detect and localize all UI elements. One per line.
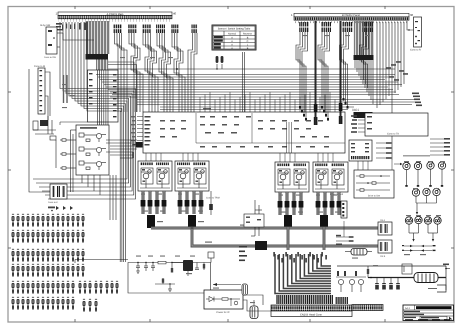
diode-resistor array row 3 xyxy=(12,249,85,262)
diode-resistor array row 6 extra group xyxy=(83,299,98,312)
array supply label xyxy=(48,207,55,212)
driver block Q3 group xyxy=(275,162,309,192)
parts between U2 and U3 xyxy=(56,139,76,169)
svg-text:Power for IC: Power for IC xyxy=(216,311,230,314)
svg-text:Conn to TK: Conn to TK xyxy=(387,133,399,136)
crystal cluster Y1 at U4 left xyxy=(133,142,143,148)
heavy harness bus band B xyxy=(192,227,378,246)
svg-text:40: 40 xyxy=(173,12,177,16)
LED D2 xyxy=(414,162,421,169)
array supply rail wire xyxy=(75,260,128,264)
jumper setting table TB1 xyxy=(212,25,256,50)
indicator header label xyxy=(403,155,430,156)
svg-text:CN A: CN A xyxy=(380,219,386,222)
dense ribbon bundle from J1 xyxy=(86,21,111,125)
title block xyxy=(403,305,454,321)
comb termination blocks xyxy=(276,295,333,304)
bus stub tags upper right xyxy=(386,61,408,80)
long arrow above regulator xyxy=(213,283,241,286)
resistor pack RP3 xyxy=(142,25,151,34)
LED D7 xyxy=(433,188,440,195)
trimmer and resistor near rail xyxy=(367,264,412,278)
svg-text:Drive to Det: Drive to Det xyxy=(368,195,380,198)
filter cap C3 xyxy=(151,263,155,272)
wires from U4/U6 down into U7 xyxy=(358,160,392,170)
pull-up caps above bus xyxy=(176,56,223,70)
LED D1 xyxy=(403,162,410,169)
svg-text:Sensor / Switch Setting Table: Sensor / Switch Setting Table xyxy=(218,27,251,30)
svg-text:A4-1: A4-1 xyxy=(405,307,411,310)
wire to right frame xyxy=(443,264,450,270)
bottom connector CN8 xyxy=(271,305,352,317)
hooked wires from RP8 group xyxy=(340,32,349,108)
lamp row leads xyxy=(409,224,438,239)
latch IC U6 below U5 xyxy=(349,140,372,161)
wire loop around CN3 xyxy=(29,69,52,192)
svg-text:Conn to SW: Conn to SW xyxy=(44,56,57,59)
resistor pack RP8 under J2 xyxy=(343,22,353,32)
crystal X1 horizontal barrel xyxy=(345,249,372,256)
comb series resistors xyxy=(273,252,327,263)
reset IC U10 top right xyxy=(410,17,422,52)
resistor pack RP2 xyxy=(128,25,137,34)
mid components on filter floor xyxy=(155,278,175,291)
single wires from J2 right pins xyxy=(377,22,404,160)
standby switch SW1 top left xyxy=(40,24,63,59)
svg-text:CN B: CN B xyxy=(380,255,386,258)
ferrite bead FB3 xyxy=(284,215,292,227)
driver block Q1 group xyxy=(138,161,172,191)
thick wire W2 descending from J2 xyxy=(314,21,318,125)
U4 interior divider xyxy=(196,113,345,143)
ferrite bead FB4 xyxy=(320,215,328,227)
heavy harness drop C from Q3 xyxy=(287,227,290,250)
resistor pack RP5 xyxy=(171,25,179,34)
spare gate wires center xyxy=(251,200,262,236)
diode-resistor array row 6 xyxy=(12,297,75,310)
arrows below CN4 xyxy=(56,206,73,210)
left service wire pair xyxy=(71,130,77,192)
channel 1 of U3 xyxy=(79,133,106,142)
choke coil L2 small barrel xyxy=(242,284,248,295)
net label cluster right margin xyxy=(430,138,450,156)
dense ribbon bundle from J2 xyxy=(354,21,375,118)
connector J2 pin number labels xyxy=(295,21,409,23)
U4 top pin drop wires from bus xyxy=(200,92,340,112)
resistor comb RC4 under Q4 xyxy=(316,192,342,215)
filter cap C2 xyxy=(144,263,148,272)
LED D5 xyxy=(412,189,419,196)
power filter loop wire xyxy=(128,263,211,294)
diode-resistor array row 2 xyxy=(12,230,85,243)
wire from J2 to U10 xyxy=(407,21,414,31)
connector CN7 small vertical xyxy=(341,201,347,218)
regulator box U8 xyxy=(204,290,243,314)
ferrite bead FB1 xyxy=(147,215,155,228)
resistor pack RP6 under J2 xyxy=(299,22,309,32)
resistor pack RP4 xyxy=(156,25,165,34)
heavy harness drop D from Q4 xyxy=(323,227,326,250)
svg-text:CN203 Head Conn: CN203 Head Conn xyxy=(300,313,322,316)
main data bus lines (lower group) xyxy=(137,100,418,110)
filter cap C1 xyxy=(136,263,140,274)
LED D3 xyxy=(427,162,434,169)
stub labels below CN7 xyxy=(336,221,354,245)
control wires into U4 left pins xyxy=(106,140,137,158)
lamp L4 xyxy=(434,217,441,224)
driver block Q4 group xyxy=(313,162,348,196)
channel 2 of U3 xyxy=(79,147,106,156)
connector J1 pin number labels xyxy=(59,19,172,21)
ribbon tail wires below J2 bundle xyxy=(355,60,373,104)
spare gate box U9 xyxy=(244,214,264,227)
diode pair row under lamps xyxy=(404,246,432,251)
component value annotations (tiny text specks) xyxy=(62,35,445,303)
microcontroller U4 (main IC) xyxy=(131,92,359,153)
net name tags left of J1 fan xyxy=(56,23,86,31)
connector J2 (top right header) xyxy=(291,13,414,23)
harness connector CN6 xyxy=(378,240,392,258)
junction dots on filter rail xyxy=(137,262,172,263)
svg-text:0401: 0401 xyxy=(352,108,359,112)
connector J2 pin row xyxy=(294,17,409,20)
decoupling caps row C10..C13 xyxy=(375,278,400,290)
svg-text:36: 36 xyxy=(410,13,414,17)
ferrite bead FB5 on band B xyxy=(255,241,267,250)
harness connector CN5 xyxy=(378,219,392,235)
table feed wires xyxy=(243,52,245,112)
driver block Q2 group xyxy=(175,161,209,191)
transistor cluster Q5..Q7 xyxy=(336,271,366,292)
parts right of Q8 xyxy=(195,252,214,290)
connector J1 (top left header) xyxy=(56,12,177,22)
lamp L2 xyxy=(415,216,422,223)
resistor pack RP1 xyxy=(113,25,122,34)
svg-text:Normal: Normal xyxy=(228,32,236,35)
svg-text:Conn to R: Conn to R xyxy=(410,49,421,52)
U4 left pin labels xyxy=(145,116,151,146)
connector J1 pin row xyxy=(58,15,172,18)
diode-resistor array row 1 xyxy=(12,214,85,227)
lamp L1 xyxy=(405,217,412,224)
svg-text:Reverse: Reverse xyxy=(243,32,253,35)
U4 left pin stubs xyxy=(137,117,143,145)
output filter rail xyxy=(337,266,446,290)
inductor FL1 barrel xyxy=(414,273,438,283)
bracket terminal right xyxy=(428,285,446,292)
wire fan from connector J1 left pins to bus xyxy=(33,22,136,262)
resistor comb RC3 under Q3 xyxy=(278,192,304,215)
LED D6 xyxy=(423,188,430,195)
resistor pack RP7 under J2 xyxy=(321,22,331,32)
U4 left net tags xyxy=(131,116,136,145)
wire from SW1 to bundle xyxy=(63,33,94,40)
ferrite bead FB2 xyxy=(188,215,196,228)
serpentine wires from RP2..RP5 down to logic xyxy=(115,33,198,112)
channel 3 of U3 xyxy=(79,161,106,170)
svg-text:St-by SW: St-by SW xyxy=(40,24,51,27)
connector CN4 small xyxy=(48,184,67,204)
hooked wires from RP6 group xyxy=(296,32,308,120)
svg-text:Conn to K: Conn to K xyxy=(48,201,58,204)
resistor comb RC2 under Q2 xyxy=(178,191,204,214)
heavy harness bus band A xyxy=(151,227,378,230)
bottom strip marks xyxy=(405,319,450,321)
title block text rows xyxy=(404,311,424,318)
net tag dashes left of band B xyxy=(239,246,247,261)
counter IC U3 (3-channel driver box) xyxy=(76,125,109,175)
upper address bus lines xyxy=(96,62,402,112)
lamp L3 xyxy=(424,217,431,224)
staircase wires from U3 to right xyxy=(82,175,116,220)
output comb wires to bottom connector xyxy=(275,254,331,294)
buffer IC U2 xyxy=(60,70,118,125)
diode-resistor array row 4 xyxy=(12,264,85,277)
svg-text:Conn to M: Conn to M xyxy=(34,65,45,68)
LED row1 leads xyxy=(407,169,443,185)
stub labels right of U5/U6 xyxy=(376,142,392,159)
wire into LED row1 xyxy=(394,163,400,165)
series resistor R20 xyxy=(158,261,166,264)
LED row2 joining wires xyxy=(416,196,437,212)
snubber cap C9 below Q2 xyxy=(209,191,213,215)
thick wire W3 descending from J2 xyxy=(339,21,343,124)
LED D4 xyxy=(438,162,445,169)
hooked wires from RP7 group xyxy=(318,32,330,120)
pass transistor Q8 xyxy=(171,260,193,276)
diode-resistor array row 5 xyxy=(12,281,119,294)
discrete parts below CN3 xyxy=(33,116,56,140)
hooked wires from RP9 group xyxy=(360,32,369,88)
wires regulator to CN8 xyxy=(243,295,271,311)
bottom connector CN8 second section xyxy=(352,305,383,311)
electrolytic cap CE1 barrel xyxy=(250,300,258,319)
title bar xyxy=(416,306,452,309)
U4 interior marks xyxy=(160,116,329,148)
bus stub name tags right side xyxy=(412,93,422,107)
svg-text:Conn to TRM: Conn to TRM xyxy=(206,197,220,200)
resistor pack RP5b xyxy=(192,25,198,34)
resistor pack RP9 under J2 xyxy=(363,22,373,32)
connector CN3 tall left xyxy=(34,65,45,114)
thick wire pair W1 descending at far left of bundle xyxy=(64,75,68,103)
sensor interface box U7 xyxy=(354,170,394,198)
resistor comb RC1 under Q1 xyxy=(141,191,167,214)
glue logic box U5 right of U4 xyxy=(351,113,428,136)
wires U4 bottom to driver blocks xyxy=(146,122,333,162)
